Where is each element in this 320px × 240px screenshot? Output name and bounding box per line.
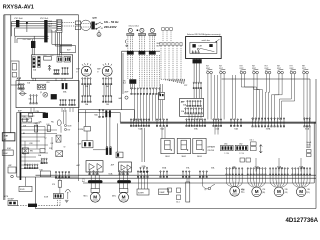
thermistor R2T <box>220 69 226 74</box>
svg-text:Y1S: Y1S <box>242 192 245 194</box>
terminal X1M stack <box>57 20 63 33</box>
ferrite block M1C <box>88 180 103 183</box>
riser X20A <box>255 158 257 172</box>
wire horizontals off bus <box>21 112 43 114</box>
svg-text:N=0: N=0 <box>123 83 126 85</box>
7-segment display SEG2 <box>177 138 190 153</box>
wire from stack down 1 <box>57 32 59 55</box>
svg-text:S1NPH: S1NPH <box>138 192 144 194</box>
vertical wire to frame bottom <box>34 177 36 209</box>
bus connector X09A <box>252 118 285 127</box>
svg-text:mfa & mfa1: mfa & mfa1 <box>129 26 140 28</box>
inverter PCB A2P dashed harness <box>139 55 141 89</box>
ferrite Z9C on fan harness <box>129 79 136 84</box>
lower rail 3 <box>83 182 314 184</box>
pcb link drop a <box>133 110 135 121</box>
arrow symbol in A1P <box>48 65 51 71</box>
svg-text:Z1C N=1: Z1C N=1 <box>40 18 49 20</box>
svg-text:(3D): (3D) <box>307 192 310 194</box>
wire SivB to A3P <box>25 177 27 186</box>
fan relay K3S connector <box>149 33 156 35</box>
relay boxes near mfa <box>251 142 257 146</box>
stubs between A1P boxes <box>32 78 34 81</box>
wire from stack down 2 <box>59 32 61 55</box>
thermistor R4T <box>253 69 259 74</box>
connector A2P comb row <box>131 88 160 95</box>
svg-text:R6T: R6T <box>277 66 280 68</box>
dip switch DS1 <box>221 145 234 150</box>
thermistor R1T leads to bus <box>208 74 218 120</box>
relay K11M cross box <box>22 148 28 154</box>
ferrite core Z2C <box>44 20 47 42</box>
selector relay circle <box>197 48 199 50</box>
bus connector X9A <box>186 119 206 127</box>
connector group left bottom <box>55 171 69 178</box>
terminal block M1C <box>91 189 100 193</box>
svg-text:A1P: A1P <box>17 78 22 81</box>
fan relay K1S connector <box>127 33 134 35</box>
option upper tiny parts <box>162 28 164 31</box>
selector switch icon <box>217 39 220 42</box>
svg-text:R3T: R3T <box>240 66 243 68</box>
fan relay K2S wire 2 <box>141 36 143 52</box>
selector terminal comb <box>192 50 199 53</box>
connector X7A below M2F harness <box>103 95 112 102</box>
svg-text:R1T: R1T <box>206 66 209 68</box>
terminal pin 4 <box>57 27 61 29</box>
terminal pin 1 <box>57 20 61 22</box>
relay K2R dark box <box>51 94 57 99</box>
compressor motor M2C <box>119 192 129 202</box>
connector group X31A bottom <box>182 171 190 178</box>
connector group X32A bottom <box>199 171 207 178</box>
svg-text:M2C: M2C <box>112 195 117 197</box>
sensor bus line <box>222 78 311 80</box>
connector X7A comb <box>69 99 75 105</box>
junction dot between relays <box>137 30 138 31</box>
expansion valve motor Y3E <box>296 187 306 197</box>
dashed corner riser <box>57 200 59 206</box>
fan motor M1F brush hatch <box>82 63 91 66</box>
svg-text:R27T: R27T <box>302 68 306 70</box>
option plugs at harness top <box>160 43 162 46</box>
svg-text:E1HC: E1HC <box>3 153 8 155</box>
vertical link wires left area <box>24 141 26 165</box>
connector above Y3E <box>292 168 311 176</box>
ferrite on field wire bottom <box>28 204 37 207</box>
component X with cross <box>56 135 61 142</box>
svg-text:Z1C N=6: Z1C N=6 <box>14 18 23 20</box>
ellipse component left <box>57 120 61 126</box>
svg-text:HR2: HR2 <box>30 150 33 152</box>
breaker contact 2 <box>97 27 103 29</box>
main PCB top bus line 2 <box>120 122 316 124</box>
wires dark stack feeds <box>106 118 108 147</box>
node junction on N <box>26 22 27 23</box>
fan section box left edge <box>121 51 123 109</box>
7-segment display SEG1 <box>161 138 174 153</box>
thermistor R6T <box>278 69 284 74</box>
ferrite core Z1C <box>16 20 19 27</box>
thermistor R8T <box>303 69 309 74</box>
bus connector X5A <box>156 119 167 127</box>
PCB A3P outline left <box>16 112 18 177</box>
fan relay K2S connector <box>138 33 145 35</box>
selector bottom plug dark <box>193 59 202 63</box>
wire right jog a <box>52 30 72 44</box>
relay boxes bottom mid <box>168 188 172 192</box>
svg-text:R21T: R21T <box>219 68 223 70</box>
connector above S1PH <box>137 171 148 178</box>
stub bar2 to jog b <box>48 31 56 33</box>
ferrite on field cable <box>91 22 94 30</box>
terminal box X3M <box>8 201 18 206</box>
connector X6A mid dark pins <box>105 110 107 117</box>
bundle left solid wire <box>122 53 124 94</box>
selector harness plug <box>193 82 202 89</box>
fuse F7U vertical <box>58 180 61 187</box>
left thick supply bus <box>20 112 22 180</box>
circle indicator <box>11 175 14 178</box>
svg-text:R8T: R8T <box>302 66 305 68</box>
wire N <box>15 27 57 29</box>
transistor Q1 symbol <box>43 92 48 97</box>
fan relay K1S wire 2 <box>129 36 131 52</box>
fan relay K3S wire 2 <box>151 36 153 52</box>
cable loop <box>81 20 91 30</box>
fan relay coil K2S <box>140 28 144 32</box>
fan section box top edge <box>122 50 160 52</box>
svg-text:Z1C N=0: Z1C N=0 <box>23 39 32 41</box>
dark stack component <box>106 148 108 155</box>
connector X3A pins <box>62 67 68 74</box>
verticals below bus at selector side <box>161 127 163 139</box>
pressure switch box S1PH <box>137 189 149 195</box>
svg-text:V2: V2 <box>64 147 66 149</box>
fan relay K2S wire 1 <box>139 36 141 52</box>
wire L3 <box>11 25 56 27</box>
svg-text:SEG2: SEG2 <box>182 156 187 158</box>
field wire dashed L <box>62 22 75 24</box>
component pair small boxes <box>23 118 27 122</box>
wire N drop <box>14 28 16 36</box>
svg-text:F2U: F2U <box>51 55 54 57</box>
pcb link drop b <box>119 113 121 123</box>
svg-text:Y2E: Y2E <box>285 189 288 191</box>
wire K11R to dark stack <box>93 149 106 151</box>
connector X4A below M2F <box>103 78 112 85</box>
sensor circle pair <box>64 124 66 126</box>
svg-text:A7P(A8P): A7P(A8P) <box>208 146 216 149</box>
connector X4A pins <box>30 95 37 104</box>
wire F7U drop <box>59 175 61 180</box>
fuse F3U <box>57 57 62 63</box>
fan relay coil K1S <box>128 28 132 32</box>
option PCB wires <box>159 84 161 92</box>
field dashed wire bottom <box>18 205 61 207</box>
power module 2 (inverter) <box>119 162 132 172</box>
relay K1R bottom row box <box>40 171 50 177</box>
wire L1 drop <box>10 22 12 36</box>
svg-text:mfa 1: mfa 1 <box>176 202 180 204</box>
svg-text:1 2 3 4: 1 2 3 4 <box>225 153 230 155</box>
fuse F5U vertical <box>47 126 50 132</box>
lower rail 1 <box>36 174 317 176</box>
box SivB <box>19 186 32 191</box>
terminal pin 3 <box>57 25 61 27</box>
ferrite block M2C <box>117 180 131 183</box>
wire ground stub <box>26 23 28 32</box>
connector X1A in A8P comb <box>185 108 202 114</box>
thermistor R5T <box>265 69 271 74</box>
sensor bus right drop <box>309 79 311 123</box>
wire from stack down 3 <box>61 32 63 55</box>
svg-text:(3D): (3D) <box>285 192 288 194</box>
small relay K4R <box>8 167 16 173</box>
7-segment display SEG3 <box>193 138 206 153</box>
svg-text:F6U: F6U <box>51 122 54 124</box>
bridge rectifier box <box>56 151 63 157</box>
main PCB A1P outline <box>16 81 79 108</box>
bus connector X1A <box>130 119 149 127</box>
connector X2A pins <box>54 69 59 74</box>
loopback wire 1 <box>15 36 49 43</box>
connector X23A <box>140 167 148 172</box>
selector wiring diagonal <box>200 48 214 51</box>
wire K11M drop b <box>86 131 88 141</box>
arc lamp symbol <box>65 189 70 192</box>
wires Z9C to comb <box>130 84 132 89</box>
connector comb mid small <box>41 158 47 164</box>
svg-text:M: M <box>299 189 303 194</box>
svg-text:A2P: A2P <box>125 91 129 94</box>
wires M3F <box>227 175 243 186</box>
wire arc to rail <box>67 193 69 199</box>
wires module1 to rail <box>89 172 91 175</box>
relay K11R box <box>82 141 93 148</box>
LED HAP <box>125 96 128 99</box>
svg-text:Rely B: Rely B <box>307 142 312 144</box>
loopback verticals to Z4C <box>31 39 33 41</box>
dark connector in mid <box>43 113 48 118</box>
outer frame left border 2 <box>4 15 6 200</box>
fan relay K1S plug <box>127 51 134 54</box>
svg-text:R24T: R24T <box>265 68 269 70</box>
thermistor R2T leads to bus <box>221 74 236 120</box>
selector harness wires to A8P <box>193 89 195 99</box>
fan motor M1F <box>81 66 91 76</box>
risers right edge <box>306 127 308 148</box>
terminal block M2C <box>119 189 128 193</box>
selector component R1 dark <box>192 44 195 47</box>
contactor coil K11M <box>84 127 91 132</box>
svg-text:R1T: R1T <box>68 130 71 132</box>
fuse F6U <box>29 113 33 116</box>
terminal X1M outline box <box>2 133 15 141</box>
tall box below rail <box>186 182 190 202</box>
field plug lower <box>75 26 80 30</box>
bus connector X3A <box>230 119 241 127</box>
control box A1P upper outline <box>32 55 73 78</box>
wire K2R feed <box>117 123 119 152</box>
connector group X30A bottom <box>160 171 168 178</box>
svg-text:M1C: M1C <box>84 195 89 197</box>
connector X6A mid <box>99 109 104 117</box>
fan relay K2S wire 3 <box>143 36 145 52</box>
PCB A3P outline bottom <box>17 176 79 178</box>
harness A2P to bus <box>134 95 136 121</box>
wires to S1PH <box>138 178 140 190</box>
wire Z4C drop b <box>33 48 35 55</box>
fan relay K3S wire 3 <box>154 36 156 52</box>
stub bar2 to jog a <box>48 29 52 31</box>
svg-text:RXYSA-AV1: RXYSA-AV1 <box>3 4 34 10</box>
svg-text:4D127736A: 4D127736A <box>286 217 319 224</box>
wire pair to sensors <box>63 110 65 124</box>
capacitor C1 box <box>2 150 13 155</box>
svg-text:R4T: R4T <box>252 66 255 68</box>
svg-text:(3D): (3D) <box>262 192 265 194</box>
main PCB top bus line <box>120 121 316 123</box>
thermistor R7T harness <box>280 74 295 120</box>
svg-text:R23T: R23T <box>252 68 256 70</box>
pcb link line a <box>79 109 135 111</box>
thermistor R8T harness <box>304 74 307 121</box>
option upper stubs <box>162 31 164 43</box>
svg-text:R5T: R5T <box>265 66 268 68</box>
svg-text:M: M <box>105 68 109 74</box>
wire L1 <box>11 21 56 23</box>
fan motor M2F brush hatch <box>103 63 112 66</box>
svg-text:switch box: switch box <box>202 39 210 42</box>
svg-text:F1U: F1U <box>21 90 24 92</box>
fan motor M1F harness <box>82 85 84 96</box>
wires into tall box <box>186 178 188 183</box>
connector block X1A column 1 <box>33 57 36 68</box>
connector above Y2E <box>269 168 288 176</box>
svg-text:X1M: X1M <box>3 136 7 138</box>
outer frame left border <box>3 15 5 200</box>
option small PCB box <box>159 92 165 99</box>
connector above M1C <box>89 171 98 175</box>
up-down arrow symbol <box>259 145 262 154</box>
svg-text:N=1: N=1 <box>82 181 85 183</box>
fuse F1U ellipse <box>20 92 25 95</box>
fuse F4U <box>64 57 71 63</box>
wires fan Y3E <box>292 175 310 187</box>
bus connector X2A <box>213 119 222 127</box>
fan relay K3S plug <box>149 51 156 54</box>
thermistor R7T <box>290 69 296 74</box>
svg-text:1 2 3 4: 1 2 3 4 <box>239 153 244 155</box>
outer frame top border <box>4 14 79 16</box>
option PCB wires to bus <box>159 100 161 120</box>
wires below X2A group <box>214 127 216 135</box>
svg-text:M: M <box>233 188 237 193</box>
wire K11M drop a <box>85 110 87 127</box>
svg-text:Selector KRC19-26A (option acc: Selector KRC19-26A (option accessory) <box>187 33 221 36</box>
fan relay K2S plug <box>139 51 146 54</box>
svg-text:R10: R10 <box>23 154 26 156</box>
wires fan Y1E <box>248 175 266 187</box>
wires fan Y2E <box>270 175 288 187</box>
svg-text:R25T: R25T <box>277 68 281 70</box>
connector above M2C <box>119 171 128 175</box>
fuse F3U vertical <box>35 125 38 132</box>
svg-text:1N ~ 50 Hz: 1N ~ 50 Hz <box>104 20 119 24</box>
svg-text:Q1: Q1 <box>204 189 206 191</box>
fan motor M2F <box>102 66 112 76</box>
power module 1 (inverter) <box>86 161 103 172</box>
option harness dashed horizontals <box>161 78 185 80</box>
selector harness wires <box>193 59 195 83</box>
svg-text:K1E: K1E <box>242 190 245 192</box>
wires down from A1P box <box>30 108 32 112</box>
narrow box inner part 2 <box>12 73 16 78</box>
earth symbol bottom <box>65 200 69 202</box>
svg-text:M: M <box>255 189 259 194</box>
dashed riser bottom left <box>59 196 61 206</box>
field plug upper <box>75 21 80 25</box>
svg-text:mfa 1: mfa 1 <box>250 139 254 141</box>
pcb link line b <box>79 112 121 114</box>
bus connector X11A <box>304 118 310 127</box>
svg-text:CN:CND: CN:CND <box>208 150 215 152</box>
fan motor M2F harness <box>103 85 105 96</box>
breaker contact 1 <box>97 22 103 24</box>
wire left box edge <box>77 110 79 181</box>
expansion valve motor Y2E <box>274 187 284 197</box>
earth wire <box>98 30 100 32</box>
inner right border <box>313 123 315 184</box>
connector above Y1E <box>247 168 266 176</box>
svg-text:R22T: R22T <box>240 68 244 70</box>
riser X25A <box>278 158 280 172</box>
relay K1R box <box>37 84 46 89</box>
wire to Q1 <box>202 176 204 186</box>
fan harness dashed group 1 <box>127 55 129 79</box>
selector inner board outline <box>190 42 217 53</box>
outer frame bottom border <box>35 208 316 210</box>
outer frame right border <box>315 79 317 209</box>
field wire dashed N <box>62 25 75 27</box>
wires module2 to rail <box>121 172 123 175</box>
thermistor R3T <box>240 69 246 74</box>
svg-text:Q1B: Q1B <box>92 17 97 19</box>
wires M1C <box>90 175 92 180</box>
narrow box inner part <box>12 64 16 71</box>
svg-text:220-240V: 220-240V <box>104 25 117 29</box>
svg-text:SEG3: SEG3 <box>197 156 202 158</box>
svg-text:C2: C2 <box>45 138 47 140</box>
svg-text:M: M <box>122 194 126 199</box>
svg-text:R5: R5 <box>23 133 25 135</box>
expansion valve motor Y1E <box>252 187 262 197</box>
svg-text:K12M: K12M <box>79 129 84 131</box>
fan relay coil K3S <box>150 28 154 32</box>
switch box right border <box>78 15 80 122</box>
thermistor harness staircase <box>241 74 282 121</box>
wires module2 feed <box>141 128 143 162</box>
fan relay K1S wire 1 <box>127 36 129 52</box>
relay K10R box <box>40 149 45 153</box>
wire L2 <box>11 23 56 25</box>
switch Q1E symbol <box>208 187 211 190</box>
svg-text:R26T: R26T <box>290 68 294 70</box>
fuse F1U <box>44 57 52 61</box>
lower rail 2 <box>55 177 316 179</box>
connector X6A below M1F harness <box>82 95 91 102</box>
